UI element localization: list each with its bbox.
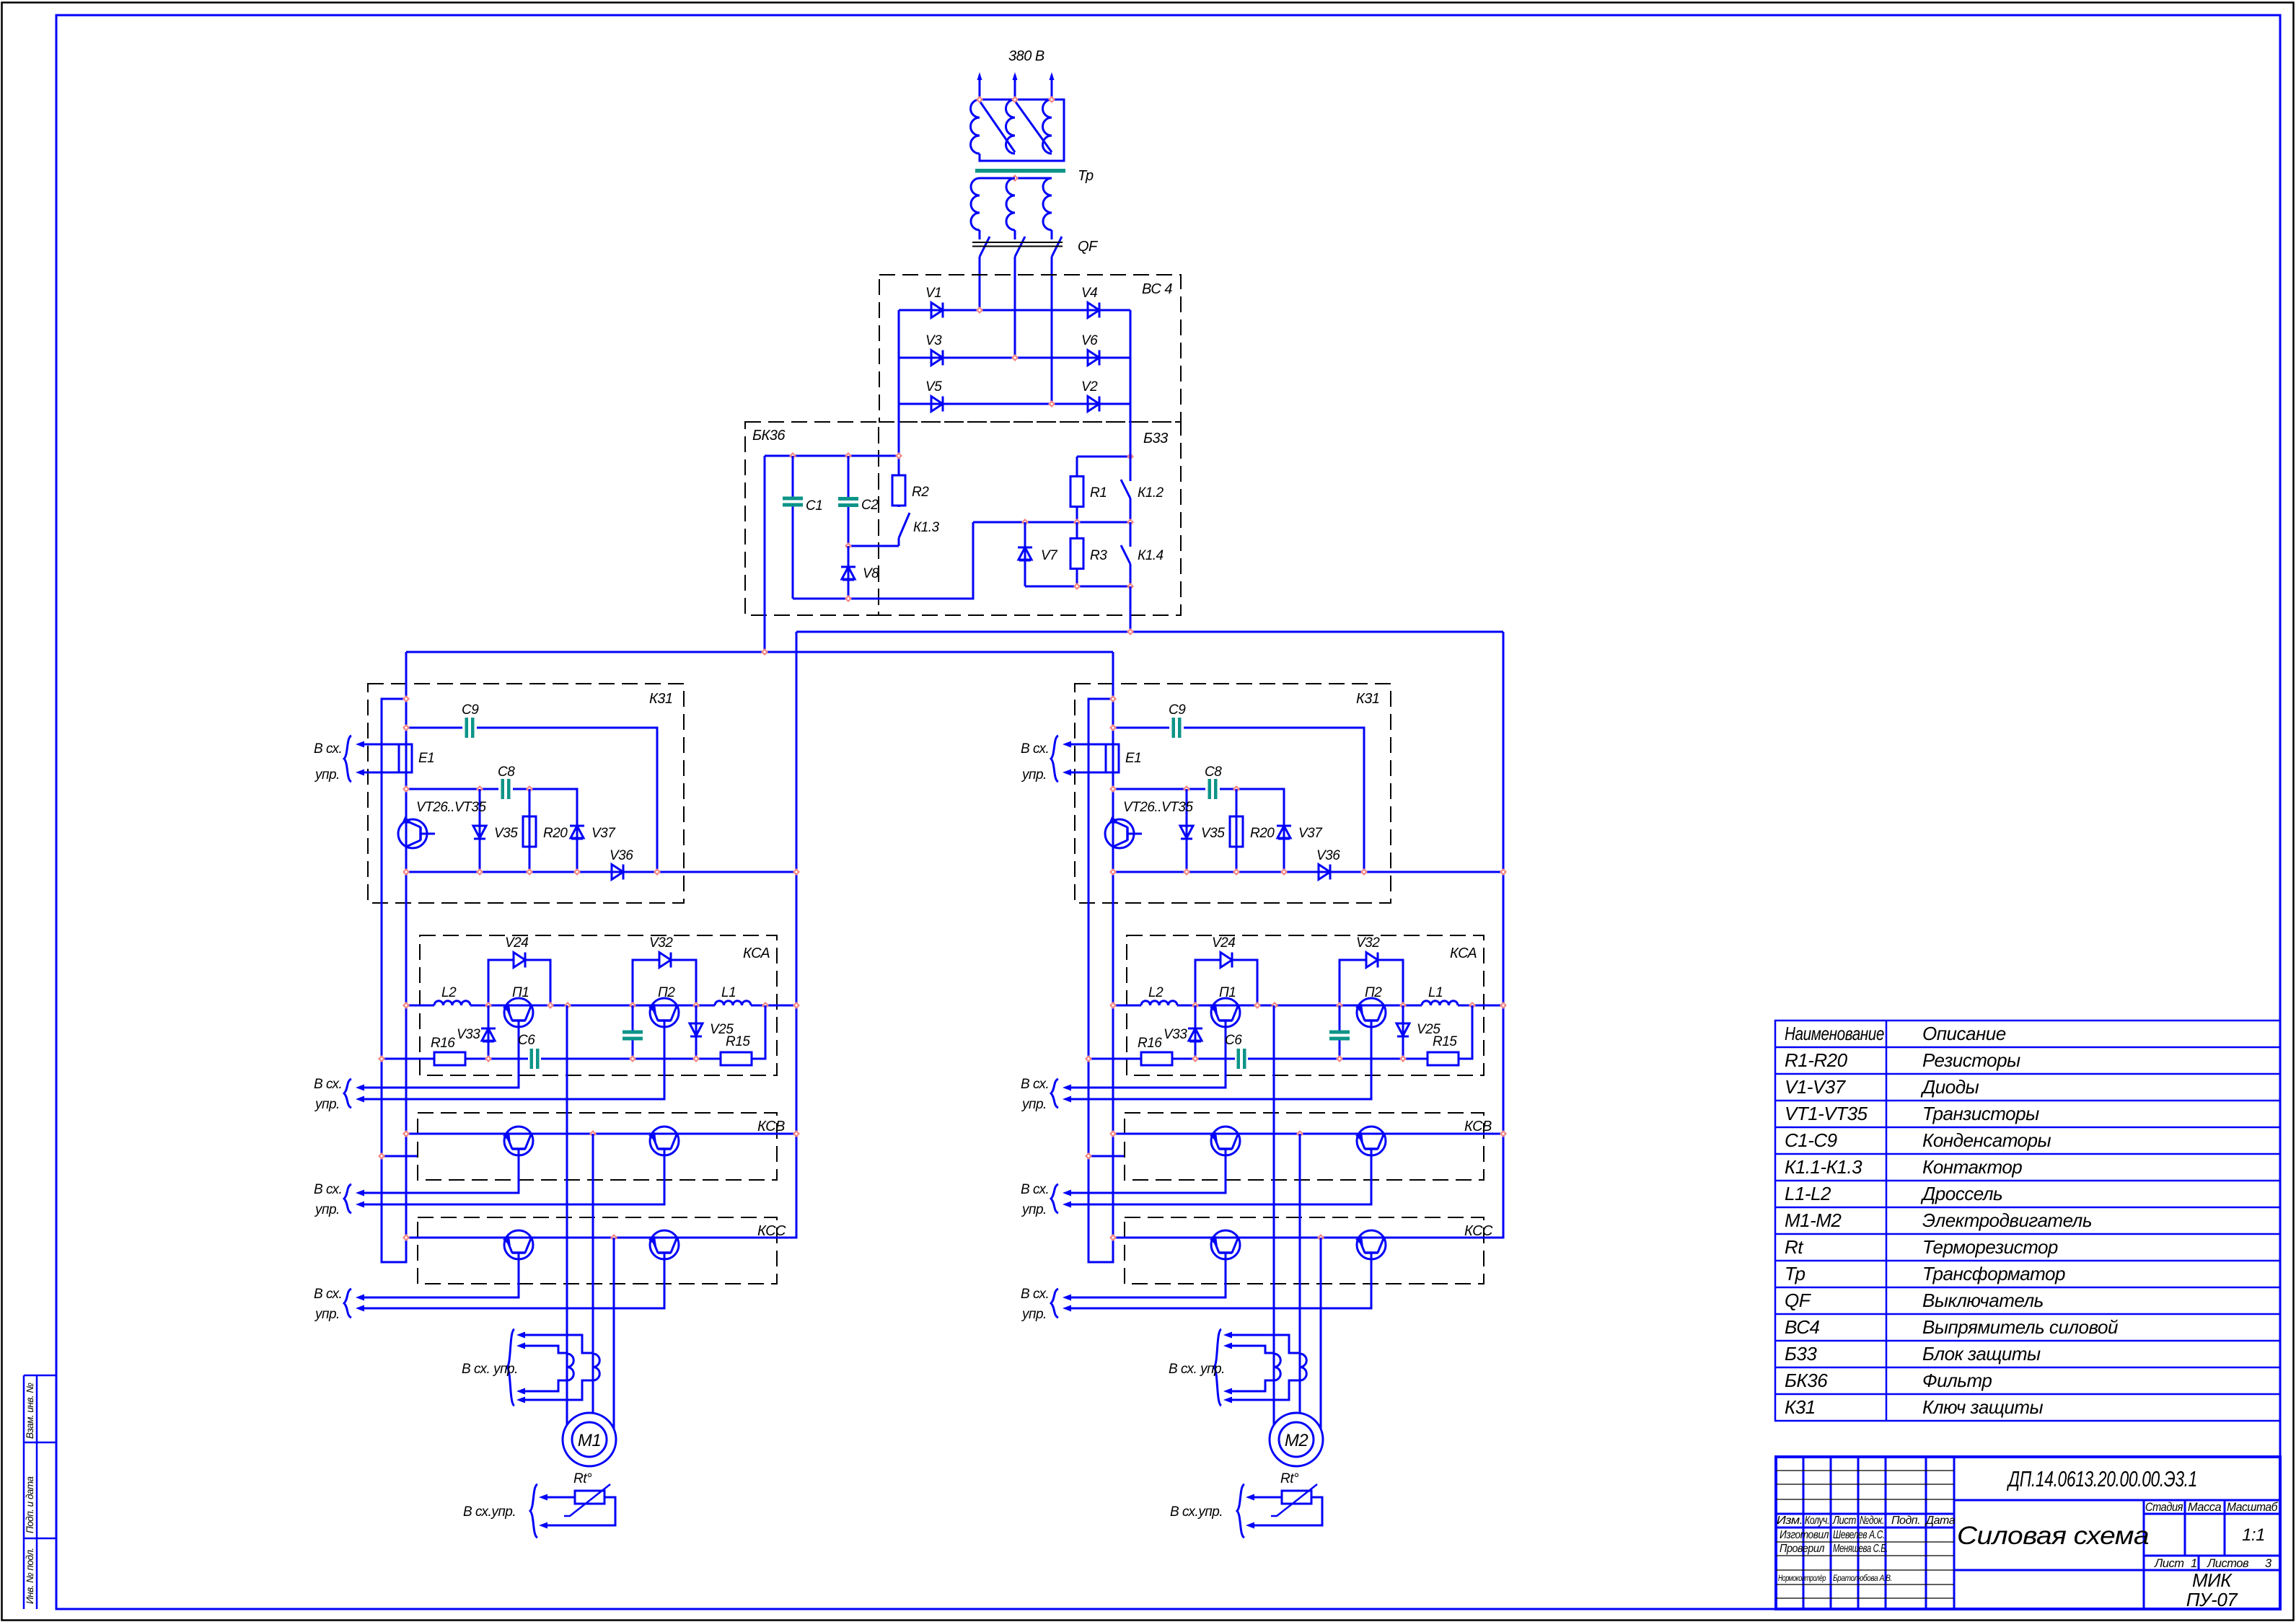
- resolver winding left: [1274, 1354, 1280, 1380]
- node V8 bottom: [845, 595, 852, 602]
- svg-text:В сх.: В сх.: [314, 741, 342, 757]
- svg-text:В сх. упр.: В сх. упр.: [462, 1362, 518, 1377]
- resolver tap 1: [1231, 1335, 1300, 1353]
- motor М2 inner: [1279, 1422, 1314, 1457]
- transistor КСС left: [504, 1230, 533, 1259]
- svg-text:R16: R16: [431, 1036, 455, 1051]
- resistor R1: [1070, 477, 1083, 507]
- block КСС box: [418, 1217, 777, 1284]
- node R20 top: [526, 785, 533, 793]
- svg-text:В сх.: В сх.: [1021, 1077, 1049, 1092]
- node feeder КСА rail: [793, 1002, 800, 1009]
- wire К31 bottom bus: [1113, 871, 1503, 873]
- arrow КСВ right base: [356, 1202, 364, 1208]
- svg-text:П1: П1: [512, 985, 529, 1000]
- wire К31 inner stub: [1088, 1155, 1125, 1158]
- block BC4 rectifier box: [879, 275, 1181, 422]
- title block blue grid: [1776, 1457, 2280, 1609]
- diode V35 line: [479, 789, 481, 872]
- svg-text:М1-М2: М1-М2: [1785, 1209, 1842, 1231]
- svg-text:упр.: упр.: [314, 1097, 340, 1112]
- arrow E1 upper: [1063, 741, 1071, 748]
- node C9 return: [1360, 868, 1368, 876]
- wire КСВ rail: [1113, 1133, 1503, 1135]
- node stub tee: [1085, 1152, 1092, 1160]
- transformer Tp secondary winding a: [971, 178, 980, 230]
- svg-text:Rt°: Rt°: [1280, 1471, 1299, 1486]
- node feeder КСА rail: [1500, 1002, 1507, 1009]
- resistor R20: [523, 816, 536, 847]
- resolver tap 2: [1231, 1346, 1274, 1353]
- optocoupler E1 wires: [364, 744, 399, 772]
- diode V4: [1088, 303, 1099, 318]
- node cap bottom: [629, 1055, 636, 1062]
- wire C8 row: [1113, 789, 1284, 872]
- diode V7 line: [1024, 522, 1026, 586]
- svg-text:C1-C9: C1-C9: [1785, 1129, 1837, 1151]
- svg-text:R20: R20: [543, 826, 568, 841]
- brace В сх. упр. E1: [1051, 736, 1058, 782]
- transformer Tp secondary winding c: [1043, 178, 1052, 230]
- arrow Rt lower: [539, 1522, 547, 1529]
- arrow Rt upper: [1246, 1494, 1254, 1501]
- wire VT base lead: [421, 833, 435, 835]
- node secondary mid: [1011, 175, 1019, 182]
- svg-text:V4: V4: [1081, 286, 1097, 301]
- diode V25 line: [1402, 1005, 1404, 1059]
- brace В сх. упр. КСА: [344, 1079, 351, 1108]
- wire BK36 top bus: [765, 455, 899, 457]
- arrow resolver 3: [516, 1388, 525, 1395]
- svg-text:R1-R20: R1-R20: [1785, 1049, 1848, 1071]
- brace В сх. упр. КСВ: [1051, 1184, 1058, 1213]
- svg-text:Транзисторы: Транзисторы: [1922, 1103, 2039, 1124]
- svg-text:V24: V24: [1212, 935, 1235, 951]
- arrow КСС right base: [1063, 1305, 1071, 1312]
- wire КСА rail: [1113, 1005, 1503, 1007]
- node motor feed A: [1271, 1002, 1278, 1009]
- diode V32: [1366, 953, 1378, 968]
- svg-text:Меняшева С.Б.: Меняшева С.Б.: [1833, 1543, 1888, 1555]
- svg-text:VT1-VT35: VT1-VT35: [1785, 1103, 1868, 1124]
- diode V32 bypass loop: [633, 960, 696, 1005]
- wire К31 inner stub: [382, 1155, 418, 1158]
- svg-text:К31: К31: [1785, 1396, 1816, 1418]
- svg-text:V36: V36: [610, 848, 633, 863]
- wire КСС left base: [364, 1253, 519, 1297]
- node R15 riser: [762, 1002, 769, 1009]
- diode V25: [689, 1023, 703, 1025]
- inductor L2: [434, 1001, 470, 1005]
- arrow Rt upper: [539, 1494, 547, 1501]
- diode V32 bypass loop: [1340, 960, 1403, 1005]
- wire КСА bottom bus: [382, 1005, 765, 1059]
- node V25 bottom: [692, 1055, 700, 1062]
- svg-text:МИК: МИК: [2192, 1569, 2233, 1591]
- node E1 out: [403, 785, 410, 793]
- wire КСВ rail: [406, 1133, 796, 1135]
- motor М1 inner: [572, 1422, 607, 1457]
- diode V35: [1179, 825, 1194, 827]
- arrow E1 lower: [1063, 770, 1071, 776]
- svg-text:V1: V1: [925, 286, 941, 301]
- transistor П1: [504, 998, 533, 1027]
- diode V36: [612, 865, 623, 880]
- wire motor feed B: [592, 1134, 594, 1413]
- svg-text:QF: QF: [1785, 1290, 1812, 1311]
- svg-text:Терморезистор: Терморезистор: [1922, 1236, 2058, 1258]
- arrow П2 base: [356, 1096, 364, 1103]
- channel М1: block К31 box: [368, 684, 684, 903]
- phase line B arrow: [1013, 72, 1018, 80]
- svg-text:К31: К31: [1356, 691, 1380, 707]
- capacitor C1: [792, 456, 794, 599]
- node КСВ rail left: [403, 1130, 410, 1137]
- arrow КСС left base: [1063, 1295, 1071, 1301]
- wire КСС rail: [1113, 1237, 1503, 1239]
- contact K1.2: [1130, 404, 1132, 522]
- diode V1: [931, 303, 943, 318]
- brace В сх. упр. КСС: [1051, 1289, 1058, 1318]
- node feeder КСВ rail: [793, 1130, 800, 1137]
- svg-text:L1: L1: [1428, 985, 1443, 1000]
- svg-text:упр.: упр.: [1021, 767, 1047, 783]
- svg-text:Трансформатор: Трансформатор: [1922, 1263, 2065, 1284]
- wire П2 base to control: [364, 1021, 664, 1099]
- channel М2: block К31 box: [1075, 684, 1391, 903]
- wire motor feed C: [613, 1238, 615, 1429]
- svg-text:К31: К31: [649, 691, 673, 707]
- node motor feed C: [610, 1234, 617, 1241]
- node phase B row2: [1011, 354, 1019, 361]
- svg-text:КСА: КСА: [743, 946, 770, 961]
- svg-text:R15: R15: [1433, 1034, 1457, 1049]
- transformer Tp secondary winding b: [1006, 178, 1015, 230]
- svg-text:3: 3: [2265, 1557, 2272, 1570]
- wire П2 base to control: [1070, 1021, 1371, 1099]
- svg-text:C1: C1: [806, 498, 822, 514]
- block КСВ box: [1125, 1113, 1484, 1180]
- node R1 link: [1127, 453, 1134, 460]
- diode V35 line: [1186, 789, 1188, 872]
- node V35 top: [1183, 785, 1190, 793]
- wire power bus upper: [796, 631, 1503, 633]
- node C1 top: [789, 452, 796, 459]
- resistor R3: [1076, 522, 1078, 586]
- node cap bottom: [1336, 1055, 1343, 1062]
- thermistor Rt wires: [1254, 1497, 1322, 1525]
- transistor КСС right: [1357, 1230, 1386, 1259]
- svg-text:Силовая схема: Силовая схема: [1957, 1522, 2149, 1550]
- svg-text:Инв. № подл.: Инв. № подл.: [25, 1548, 35, 1604]
- phase line C arrow: [1050, 72, 1055, 80]
- diode V33 line: [1195, 1005, 1197, 1059]
- resistor R20 line: [1236, 789, 1238, 872]
- capacitor КСА (unlabeled): [1329, 1031, 1350, 1034]
- svg-text:КСА: КСА: [1450, 946, 1477, 961]
- arrow КСВ left base: [356, 1190, 364, 1196]
- wire rectifier row 1: [899, 309, 1130, 312]
- brace В сх.упр. Rt: [530, 1484, 537, 1538]
- transistor КСВ right: [650, 1127, 679, 1155]
- diode V8: [841, 566, 855, 568]
- diode V25: [1396, 1023, 1410, 1025]
- svg-text:Блок защиты: Блок защиты: [1922, 1343, 2041, 1365]
- transformer Tp secondary top bus: [980, 177, 1052, 180]
- wire C8 row: [406, 789, 577, 872]
- resistor R16: [434, 1052, 465, 1065]
- node R3 top: [1073, 519, 1081, 526]
- transistor П1: [1211, 998, 1240, 1027]
- brace В сх. упр. КСВ: [344, 1184, 351, 1213]
- arrow КСВ right base: [1063, 1202, 1071, 1208]
- optocoupler E1: [1106, 744, 1119, 772]
- node R2 top: [895, 452, 902, 459]
- svg-text:Взам. инв. №: Взам. инв. №: [25, 1383, 35, 1439]
- node K1.4 bottom: [1127, 583, 1134, 590]
- node V32 left: [629, 1002, 636, 1009]
- svg-text:Изготовил: Изготовил: [1780, 1529, 1829, 1541]
- svg-text:Стадия: Стадия: [2145, 1501, 2183, 1514]
- title block thin rows: [1776, 1471, 1954, 1598]
- wire motor feed A: [1273, 1005, 1275, 1425]
- svg-text:1: 1: [2191, 1557, 2197, 1570]
- svg-text:ПУ-07: ПУ-07: [2186, 1589, 2239, 1610]
- node КСА bottom left: [1085, 1055, 1092, 1062]
- svg-text:М1: М1: [578, 1431, 601, 1450]
- arrow П1 base: [356, 1085, 364, 1091]
- node C2 top: [845, 452, 852, 459]
- diode V7: [1018, 547, 1032, 549]
- wire КСС rail: [406, 1237, 796, 1239]
- motor М1 outer: [563, 1413, 616, 1466]
- transformer Tp primary top bus: [980, 100, 1064, 161]
- svg-text:Наименование: Наименование: [1785, 1023, 1884, 1044]
- svg-text:R2: R2: [912, 485, 929, 500]
- resistor R2: [892, 475, 905, 506]
- svg-text:В сх.упр.: В сх.упр.: [1170, 1504, 1223, 1520]
- resolver winding right: [1300, 1354, 1306, 1380]
- node C9 branch: [1109, 724, 1117, 731]
- svg-text:Тр: Тр: [1078, 168, 1094, 184]
- arrow resolver 1: [1223, 1332, 1232, 1339]
- capacitor C6: [1237, 1049, 1241, 1069]
- svg-text:V2: V2: [1081, 379, 1098, 395]
- node BK36 output on bus: [761, 648, 768, 656]
- transformer Tp primary winding C: [1043, 100, 1052, 154]
- resistor R20 line: [529, 789, 531, 872]
- resolver tap 4: [524, 1380, 593, 1400]
- capacitor C6: [530, 1049, 534, 1069]
- diode V3: [931, 351, 943, 366]
- svg-text:L2: L2: [1148, 985, 1164, 1000]
- wire КСС left base: [1070, 1253, 1226, 1297]
- component table: [1775, 1021, 2280, 1421]
- svg-text:V37: V37: [591, 826, 616, 841]
- wire channel feeder from power bus: [406, 632, 796, 1238]
- node motor feed C: [1317, 1234, 1324, 1241]
- node R20 bottom: [1233, 868, 1240, 876]
- resolver winding right: [593, 1354, 599, 1380]
- node V33 bottom: [485, 1055, 492, 1062]
- wire phase B top: [1014, 75, 1016, 100]
- svg-text:Конденсаторы: Конденсаторы: [1922, 1129, 2051, 1151]
- resolver tap 1: [524, 1335, 593, 1353]
- wire КСС right base: [1070, 1253, 1371, 1308]
- svg-text:П1: П1: [1219, 985, 1236, 1000]
- svg-text:К1.2: К1.2: [1138, 485, 1164, 501]
- brace В сх. упр. КСС: [344, 1289, 351, 1318]
- svg-text:R1: R1: [1090, 485, 1107, 501]
- svg-text:L1-L2: L1-L2: [1785, 1183, 1831, 1204]
- diode V8 line: [848, 546, 850, 599]
- node V35 top: [476, 785, 483, 793]
- svg-text:Листов: Листов: [2207, 1557, 2249, 1570]
- brace В сх.упр. Rt: [1237, 1484, 1244, 1538]
- node V24 right: [547, 1002, 554, 1009]
- svg-text:Подп.: Подп.: [1891, 1515, 1920, 1527]
- brace В сх. упр. КСА: [1051, 1079, 1058, 1108]
- node R15 riser: [1469, 1002, 1476, 1009]
- diode V6: [1088, 351, 1099, 366]
- wire rectifier row 3: [899, 403, 1130, 405]
- svg-text:E1: E1: [418, 751, 434, 766]
- arrow П2 base: [1063, 1096, 1071, 1103]
- node motor feed B: [589, 1130, 597, 1137]
- resolver tap 3: [524, 1380, 567, 1391]
- svg-text:Б33: Б33: [1143, 431, 1168, 446]
- wire secondary b to QF: [1014, 230, 1016, 239]
- node V25 bottom: [1399, 1055, 1407, 1062]
- arrow КСВ left base: [1063, 1190, 1071, 1196]
- transformer Tp primary winding A: [971, 100, 980, 154]
- svg-text:Шевелев А.С.: Шевелев А.С.: [1833, 1529, 1885, 1541]
- svg-text:C8: C8: [1205, 764, 1222, 780]
- svg-text:V33: V33: [1164, 1027, 1187, 1042]
- svg-text:упр.: упр.: [1021, 1097, 1047, 1112]
- wire control bus lower: [406, 651, 1113, 653]
- node E1 out: [1109, 785, 1117, 793]
- resolver tap 4: [1231, 1380, 1300, 1400]
- inductor L1: [715, 1001, 751, 1005]
- svg-text:E1: E1: [1125, 751, 1141, 766]
- svg-text:Масса: Масса: [2188, 1501, 2222, 1514]
- wire B33 middle bus: [973, 521, 1130, 524]
- svg-text:V32: V32: [1356, 935, 1380, 951]
- svg-text:Проверил: Проверил: [1780, 1543, 1824, 1555]
- node primary C: [1048, 96, 1055, 103]
- wire КСВ left base: [364, 1149, 519, 1193]
- svg-text:К1.1-К1.3: К1.1-К1.3: [1785, 1156, 1862, 1178]
- block БК36 filter box: [745, 422, 879, 615]
- capacitor C8: [501, 779, 505, 799]
- svg-text:V7: V7: [1041, 548, 1058, 563]
- capacitor КСА line: [632, 1005, 634, 1059]
- wire motor feed A: [566, 1005, 568, 1425]
- node feeder K31 bus: [793, 868, 800, 876]
- contact K1.4: [1130, 522, 1132, 586]
- svg-text:V24: V24: [505, 935, 528, 951]
- node V37 bottom: [1280, 868, 1288, 876]
- wire К31 bottom bus: [406, 871, 796, 873]
- wire motor feed C: [1320, 1238, 1322, 1429]
- left margin stamp box: [24, 1375, 56, 1609]
- svg-text:380 В: 380 В: [1008, 48, 1044, 64]
- wire КСВ left base: [1070, 1149, 1226, 1193]
- diode V35: [472, 825, 487, 827]
- svg-text:ВС 4: ВС 4: [1142, 281, 1172, 297]
- wire K1.3 to C2 bottom: [848, 545, 899, 547]
- wire phase C top: [1051, 75, 1053, 100]
- wire КСА rail: [406, 1005, 796, 1007]
- svg-text:В сх.: В сх.: [1021, 741, 1049, 757]
- transistor П2: [1357, 998, 1386, 1027]
- svg-text:Ключ защиты: Ключ защиты: [1922, 1396, 2044, 1418]
- diode V5: [931, 397, 943, 412]
- inductor L2: [1141, 1001, 1177, 1005]
- wire BK36 left output down to control bus: [764, 456, 766, 652]
- svg-text:Изм.: Изм.: [1777, 1515, 1803, 1527]
- capacitor C2: [848, 456, 850, 546]
- svg-text:П2: П2: [658, 985, 675, 1000]
- node feeder КСВ rail: [1500, 1130, 1507, 1137]
- contact K1.3: [898, 506, 900, 546]
- transformer Tp delta link A-B: [980, 101, 1015, 152]
- svg-text:упр.: упр.: [314, 1307, 340, 1322]
- node C9 return: [654, 868, 661, 876]
- arrow resolver 4: [516, 1397, 525, 1403]
- node V35 bottom: [1183, 868, 1190, 876]
- arrow resolver 1: [516, 1332, 525, 1339]
- resistor R20: [1230, 816, 1243, 847]
- svg-text:V5: V5: [925, 379, 942, 395]
- transformer Tp primary winding B: [1006, 100, 1016, 154]
- node primary A: [976, 96, 983, 103]
- svg-text:Rt: Rt: [1785, 1236, 1804, 1258]
- svg-text:Тр: Тр: [1785, 1263, 1805, 1284]
- svg-text:Дата: Дата: [1925, 1515, 1956, 1527]
- thermistor Rt wires: [547, 1497, 615, 1525]
- node R20 bottom: [526, 868, 533, 876]
- svg-text:C2: C2: [861, 498, 879, 513]
- svg-text:R3: R3: [1090, 548, 1107, 563]
- svg-text:упр.: упр.: [314, 1202, 340, 1217]
- transistor П2: [650, 998, 679, 1027]
- svg-text:№док.: №док.: [1860, 1515, 1884, 1527]
- wire rectifier right rail: [1130, 310, 1132, 404]
- transistor КСВ left: [504, 1127, 533, 1155]
- diode V36: [1319, 865, 1330, 880]
- node КСС rail left: [403, 1234, 410, 1241]
- brace В сх. упр. resolver: [507, 1329, 514, 1406]
- diode V25 line: [695, 1005, 698, 1059]
- arrow E1 lower: [356, 770, 364, 776]
- breaker QF pole C: [1052, 237, 1062, 257]
- diode V33: [481, 1028, 496, 1030]
- wire secondary a to QF: [979, 230, 981, 239]
- svg-text:М2: М2: [1285, 1431, 1308, 1450]
- capacitor C9: [1172, 718, 1176, 738]
- transistor КСС right: [650, 1230, 679, 1259]
- svg-text:QF: QF: [1078, 239, 1099, 255]
- resolver winding left: [567, 1354, 573, 1380]
- svg-text:V1-V37: V1-V37: [1785, 1076, 1847, 1098]
- transformer Tp core: [975, 169, 1065, 173]
- wire main rail vertical from control bus: [382, 652, 406, 1262]
- svg-text:Электродвигатель: Электродвигатель: [1922, 1209, 2092, 1231]
- svg-text:Выключатель: Выключатель: [1922, 1290, 2044, 1311]
- resolver tap 3: [1231, 1380, 1274, 1391]
